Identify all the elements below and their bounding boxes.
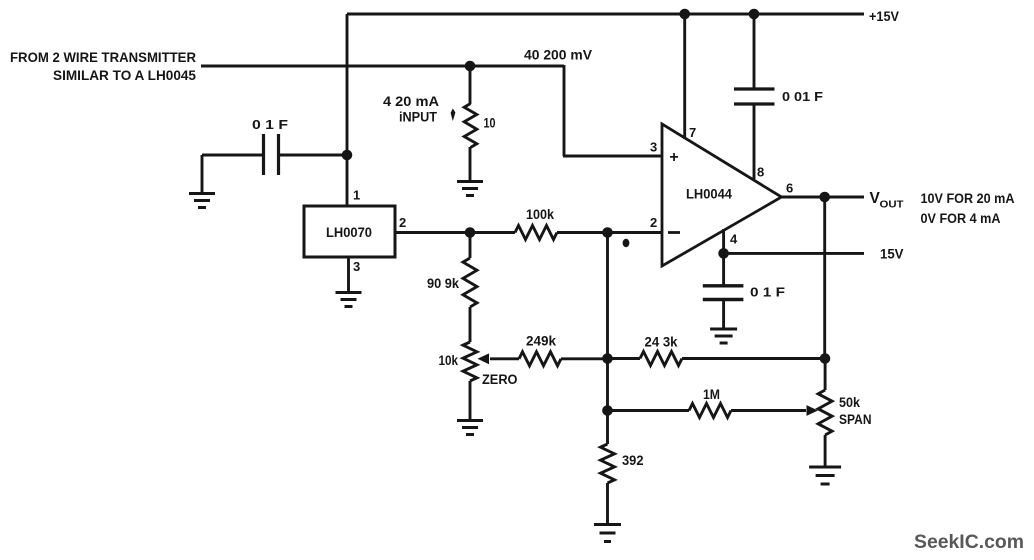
op-amp - symbol bbox=[668, 231, 680, 234]
svg-text:3: 3 bbox=[353, 259, 360, 274]
ground under C3 bbox=[710, 329, 737, 343]
label 40-200 mV bbox=[524, 48, 592, 63]
label 0.1 uF C3 bbox=[750, 285, 785, 300]
node junction output bus / 24.3k bbox=[820, 353, 831, 364]
svg-text:SeekIC.com: SeekIC.com bbox=[914, 531, 1024, 553]
label SIMILAR TO A LH0045 bbox=[53, 67, 196, 83]
wire R1 bottom lead bbox=[469, 147, 472, 181]
wire 249k to summing node bbox=[561, 357, 608, 360]
svg-text:7: 7 bbox=[689, 125, 696, 140]
pin 4 label bbox=[730, 232, 738, 247]
node junction pin4 bbox=[718, 248, 729, 259]
label 90.9k bbox=[427, 276, 459, 291]
svg-text:10k: 10k bbox=[439, 353, 459, 368]
wire rail to C2 bbox=[753, 14, 756, 89]
wire capacitor right lead bbox=[278, 154, 347, 157]
potentiometer R4 10k body bbox=[463, 342, 477, 381]
wire C2 to pin 8 bbox=[753, 104, 756, 179]
capacitor C2 0.01uF top plate bbox=[734, 87, 775, 90]
wire pot bottom lead bbox=[469, 381, 472, 420]
ground under SPAN pot bbox=[809, 467, 841, 484]
wire summing bus vertical bbox=[606, 233, 609, 445]
capacitor C1 0.1uF right plate bbox=[277, 134, 280, 175]
label 1M bbox=[703, 387, 720, 402]
wire to op-amp noninverting input bbox=[563, 155, 663, 158]
pin 3 label opamp bbox=[650, 140, 657, 155]
IC U2 LH0070 box bbox=[304, 206, 395, 257]
svg-text:SPAN: SPAN bbox=[839, 412, 872, 427]
label 249k bbox=[526, 334, 556, 349]
svg-text:10: 10 bbox=[484, 116, 496, 131]
label +15V bbox=[869, 9, 899, 24]
ground under LH0070 bbox=[336, 293, 362, 307]
svg-text:1: 1 bbox=[353, 188, 360, 203]
node junction output bbox=[819, 192, 830, 203]
svg-text:249k: 249k bbox=[526, 334, 556, 349]
wire +15V supply rail bbox=[347, 13, 864, 16]
svg-text:0 1 F: 0 1 F bbox=[750, 285, 785, 300]
node junction cap to LH0070 line bbox=[342, 150, 353, 161]
wire 24.3k left lead bbox=[608, 357, 641, 360]
pin 2 label opamp bbox=[650, 215, 657, 230]
svg-text:50k: 50k bbox=[839, 395, 860, 410]
label 0V FOR 4 mA bbox=[921, 211, 1001, 226]
ink blob artifact bbox=[623, 239, 630, 247]
pin 8 label bbox=[757, 165, 764, 180]
label 4-20 mA bbox=[383, 94, 439, 109]
wire ground stub C1 bbox=[201, 155, 204, 193]
svg-text:15V: 15V bbox=[880, 247, 904, 262]
svg-text:iNPUT: iNPUT bbox=[399, 110, 438, 125]
label FROM 2 WIRE TRANSMITTER bbox=[10, 49, 196, 65]
capacitor C2 0.01uF bottom plate bbox=[734, 102, 775, 105]
label 0.1 uF C1 bbox=[252, 117, 288, 132]
span wiper arrow bbox=[807, 405, 819, 416]
label 0.01 uF C2 bbox=[782, 89, 823, 104]
pin 6 label bbox=[786, 181, 793, 196]
wire 90.9k top lead bbox=[469, 233, 472, 259]
label 392 bbox=[622, 453, 644, 468]
potentiometer R9 50k body bbox=[818, 390, 832, 435]
label 100k bbox=[526, 207, 554, 222]
label 50k bbox=[839, 395, 860, 410]
svg-text:40 200 mV: 40 200 mV bbox=[524, 48, 592, 63]
svg-text:4 20 mA: 4 20 mA bbox=[383, 94, 439, 109]
input arrow mark bbox=[451, 109, 456, 122]
svg-text:4: 4 bbox=[730, 232, 738, 247]
svg-text:LH0044: LH0044 bbox=[686, 187, 732, 202]
ground under 392 bbox=[594, 525, 621, 542]
label VOUT V bbox=[870, 190, 881, 207]
svg-text:SIMILAR TO A LH0045: SIMILAR TO A LH0045 bbox=[53, 67, 196, 83]
svg-text:2: 2 bbox=[650, 215, 657, 230]
svg-text:6: 6 bbox=[786, 181, 793, 196]
wire LH0070 pin 2 lead bbox=[395, 231, 515, 234]
label 10k bbox=[439, 353, 459, 368]
wire wiper to 249k bbox=[490, 357, 519, 360]
wire rail to LH0070 pin 1 bbox=[346, 14, 349, 207]
svg-text:FROM 2 WIRE TRANSMITTER: FROM 2 WIRE TRANSMITTER bbox=[10, 49, 196, 65]
ground under C1 bbox=[189, 194, 215, 208]
capacitor C3 0.1uF bottom plate bbox=[703, 298, 744, 301]
ground under ZERO pot bbox=[457, 421, 483, 435]
node junction pin2 / 90.9k bbox=[465, 227, 476, 238]
ground under R1 bbox=[457, 182, 483, 196]
svg-text:24 3k: 24 3k bbox=[645, 335, 678, 350]
resistor R1 10 ohm bbox=[464, 104, 477, 148]
svg-text:LH0070: LH0070 bbox=[326, 225, 372, 240]
svg-text:0V FOR 4 mA: 0V FOR 4 mA bbox=[921, 211, 1001, 226]
resistor R2 100k bbox=[515, 226, 557, 240]
wire 90.9k to pot bbox=[469, 307, 472, 342]
label 10V FOR 20 mA bbox=[921, 191, 1015, 206]
svg-text:3: 3 bbox=[650, 140, 657, 155]
wire pin 7 supply bbox=[683, 14, 686, 139]
label VOUT subscript bbox=[880, 199, 905, 211]
svg-text:100k: 100k bbox=[526, 207, 554, 222]
wire output pin 6 bbox=[782, 196, 865, 199]
wire input drop to op-amp bbox=[563, 65, 566, 156]
label ZERO bbox=[482, 372, 518, 387]
node junction input / R1 bbox=[465, 61, 476, 72]
pin 1 label bbox=[353, 188, 360, 203]
pin 7 label bbox=[689, 125, 696, 140]
svg-text:+15V: +15V bbox=[869, 9, 899, 24]
pin 2 label bbox=[399, 215, 406, 230]
svg-text:ZERO: ZERO bbox=[482, 372, 518, 387]
wire R1 top lead bbox=[469, 66, 472, 104]
label LH0044 bbox=[686, 187, 732, 202]
wire 392 bottom lead bbox=[606, 483, 609, 524]
pot wiper arrow ZERO bbox=[478, 353, 490, 364]
svg-text:392: 392 bbox=[622, 453, 644, 468]
op-amp U1 LH0044 triangle bbox=[662, 124, 782, 266]
wire LH0070 pin3 to ground bbox=[347, 257, 350, 292]
node junction feedback bus bbox=[602, 353, 613, 364]
wire output bus to span pot bbox=[824, 359, 827, 391]
node junction rail pin8 bbox=[749, 9, 760, 20]
label SPAN bbox=[839, 412, 872, 427]
svg-text:OUT: OUT bbox=[880, 199, 905, 211]
svg-text:0 1 F: 0 1 F bbox=[252, 117, 288, 132]
resistor R3 90.9k bbox=[463, 258, 477, 307]
svg-text:2: 2 bbox=[399, 215, 406, 230]
resistor R6 24.3k bbox=[640, 352, 682, 366]
wire -15V line bbox=[724, 252, 864, 255]
wire capacitor left lead bbox=[202, 154, 263, 157]
wire 100k to inverting input bbox=[557, 231, 662, 234]
label -15V bbox=[880, 247, 904, 262]
svg-text:1M: 1M bbox=[703, 387, 720, 402]
wire 1M left lead bbox=[608, 409, 690, 412]
svg-text:90 9k: 90 9k bbox=[427, 276, 459, 291]
capacitor C3 0.1uF top plate bbox=[703, 284, 744, 287]
node junction rail pin7 bbox=[679, 9, 690, 20]
wire 24.3k to output bus bbox=[682, 357, 825, 360]
label 10 bbox=[484, 116, 496, 131]
label 24.3k bbox=[645, 335, 678, 350]
resistor R7 1M bbox=[689, 404, 731, 418]
wire span pot to ground bbox=[824, 435, 827, 467]
label LH0070 bbox=[326, 225, 372, 240]
wire output down to feedback bbox=[823, 197, 826, 359]
op-amp + symbol bbox=[669, 149, 678, 166]
svg-text:0 01 F: 0 01 F bbox=[782, 89, 823, 104]
node junction inverting input bbox=[602, 227, 613, 238]
svg-text:10V FOR 20 mA: 10V FOR 20 mA bbox=[921, 191, 1015, 206]
resistor R8 392 bbox=[601, 444, 615, 483]
watermark SeekIC.com bbox=[914, 531, 1024, 553]
wire 1M to span wiper bbox=[731, 409, 806, 412]
svg-text:8: 8 bbox=[757, 165, 764, 180]
label INPUT bbox=[399, 110, 438, 125]
wire C3 to ground bbox=[722, 300, 725, 330]
node junction 1M bus bbox=[602, 405, 613, 416]
svg-text:+: + bbox=[669, 149, 678, 166]
resistor R5 249k bbox=[519, 352, 561, 366]
pin 3 label bbox=[353, 259, 360, 274]
wire 4-20mA input line bbox=[201, 65, 564, 68]
wire pin 4 lead bbox=[722, 229, 725, 286]
capacitor C1 0.1uF left plate bbox=[262, 134, 265, 175]
